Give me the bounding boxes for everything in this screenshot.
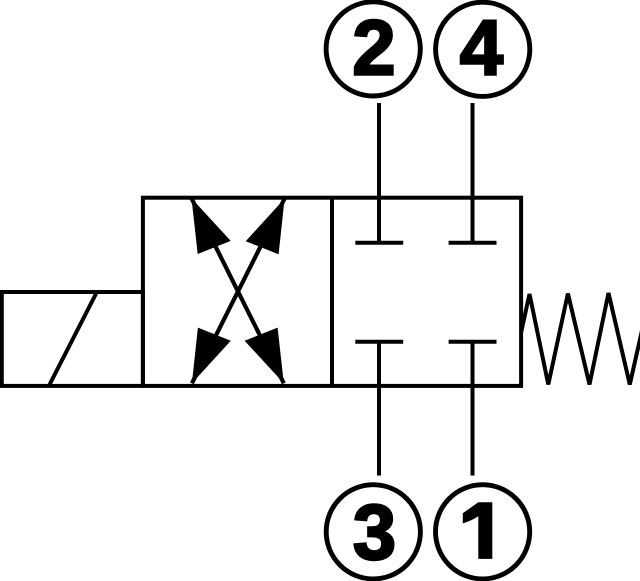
svg-text:4: 4 — [460, 3, 503, 91]
svg-text:2: 2 — [352, 3, 395, 91]
svg-text:3: 3 — [353, 488, 396, 576]
